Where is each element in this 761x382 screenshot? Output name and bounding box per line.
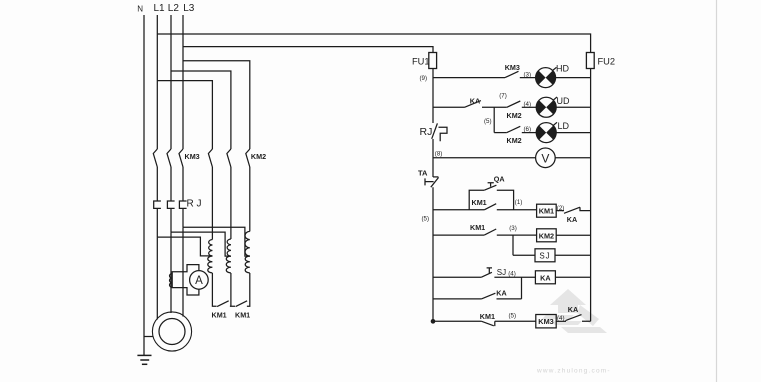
fuse FU2	[586, 53, 594, 69]
wire L3 tap to coil 3	[183, 227, 250, 256]
contact KM1 self-hold	[484, 204, 496, 210]
autotransformer coil 3	[245, 231, 250, 256]
svg-text:SJ: SJ	[539, 251, 550, 260]
wire	[497, 298, 522, 300]
contactor contact KM1 star 1	[217, 301, 229, 307]
svg-text:KA: KA	[470, 96, 480, 105]
wire	[497, 209, 537, 211]
wire branch KA self-hold	[521, 277, 523, 299]
wire L1 tap to coil 1	[157, 237, 212, 256]
svg-text:N: N	[137, 5, 143, 14]
svg-text:(4): (4)	[524, 101, 532, 108]
contactor contact KM2 pole 2	[227, 149, 231, 167]
svg-text:RJ: RJ	[420, 126, 433, 138]
svg-text:KM1: KM1	[235, 311, 250, 320]
wire UD row	[433, 106, 465, 108]
wire	[556, 234, 590, 236]
wire L2 to motor	[170, 232, 172, 313]
contact KM1 NC (KM3 row)	[482, 321, 495, 326]
svg-text:KM1: KM1	[480, 312, 495, 321]
wire KM2 column 2	[230, 167, 232, 239]
watermark	[542, 289, 607, 333]
contact KM2 (UD row)	[507, 101, 521, 107]
svg-text:L1: L1	[154, 3, 166, 14]
contact KM1 (KM2 row)	[484, 229, 496, 235]
relay coil KA	[535, 271, 555, 284]
wire	[555, 157, 590, 159]
wire branch to SJ	[512, 235, 514, 255]
wire L3 to KM2 column 3	[183, 61, 250, 149]
svg-text:L3: L3	[183, 3, 195, 14]
contactor coil KM3	[536, 315, 556, 328]
autotransformer coil 2	[227, 239, 231, 256]
svg-text:UD: UD	[557, 96, 570, 106]
wire	[182, 167, 184, 201]
svg-text:(3): (3)	[524, 71, 532, 78]
svg-text:KA: KA	[568, 305, 578, 314]
wire	[553, 67, 557, 70]
svg-text:KM2: KM2	[251, 152, 266, 161]
wire voltmeter row	[433, 157, 536, 159]
wire coil 2 tail	[230, 273, 235, 306]
svg-text:(9): (9)	[420, 75, 428, 82]
thermal relay RJ heater element	[179, 201, 186, 208]
wire	[716, 0, 718, 382]
contactor contact KM3 pole 3	[179, 149, 183, 167]
contactor contact KM1 star 2	[236, 301, 248, 307]
wire N to motor	[144, 336, 153, 338]
svg-text:(5): (5)	[484, 118, 492, 125]
svg-text:KM1: KM1	[472, 198, 487, 207]
wire	[556, 106, 590, 108]
svg-text:A: A	[195, 275, 203, 287]
thermal relay RJ heater element	[154, 201, 161, 208]
junction	[431, 320, 434, 323]
svg-text:KM3: KM3	[538, 317, 553, 326]
svg-text:(6): (6)	[524, 126, 532, 133]
wire HD row	[433, 77, 505, 79]
svg-text:(5): (5)	[422, 216, 430, 223]
lamp LD	[536, 123, 556, 143]
wire	[497, 234, 537, 236]
wire L3 vertical	[182, 15, 184, 149]
svg-text:KM3: KM3	[505, 63, 520, 72]
wire	[556, 77, 591, 79]
contact KM2 (LD row)	[507, 126, 521, 132]
svg-text:KA: KA	[540, 273, 551, 282]
svg-text:KA: KA	[567, 215, 577, 224]
svg-text:SJ: SJ	[497, 268, 506, 277]
relay contact KA (KM3 row)	[566, 315, 591, 322]
wire KM3 coil row	[433, 320, 482, 322]
svg-text:L2: L2	[168, 3, 180, 14]
svg-text:LD: LD	[558, 121, 570, 131]
svg-text:QA: QA	[494, 175, 505, 184]
relay contact KA (KM1 row)	[564, 207, 591, 213]
wire	[494, 276, 535, 278]
time relay coil SJ	[535, 249, 555, 262]
svg-text:KM3: KM3	[185, 152, 200, 161]
svg-text:(1): (1)	[515, 199, 523, 206]
wire	[170, 167, 172, 201]
wire	[522, 132, 536, 134]
svg-text:(7): (7)	[499, 93, 507, 100]
wire	[156, 167, 158, 201]
motor M1	[152, 312, 191, 351]
wire KM2 column 1	[211, 167, 213, 240]
svg-text:V: V	[541, 151, 549, 165]
wire L1 to motor	[156, 237, 158, 319]
wire L3 to FU1	[183, 47, 433, 53]
svg-text:R J: R J	[187, 199, 202, 210]
node N	[143, 15, 145, 355]
time contact SJ (delayed NO)	[481, 272, 492, 277]
svg-text:KM1: KM1	[212, 311, 227, 320]
wire KM2 coil row	[433, 234, 484, 236]
wire	[495, 320, 536, 322]
svg-text:(3): (3)	[509, 225, 517, 232]
wire	[556, 132, 590, 134]
svg-text:KA: KA	[496, 289, 506, 298]
svg-text:FU1: FU1	[412, 57, 430, 67]
wire KA coil row	[433, 276, 481, 278]
ground	[137, 355, 151, 364]
fuse FU1	[429, 53, 437, 69]
wire	[553, 97, 557, 100]
wire KA self-hold row	[433, 298, 481, 300]
autotransformer coil 1	[209, 240, 213, 257]
pushbutton QA (start, NO)	[488, 183, 494, 187]
wire branch to LD	[493, 107, 495, 132]
svg-text:(2): (2)	[557, 205, 565, 212]
wire right control bus	[590, 69, 592, 322]
wire L2 vertical	[170, 15, 172, 149]
thermal relay RJ contact	[432, 123, 438, 138]
wire L2 tap to coil 2	[171, 232, 231, 256]
wire coil 3 tail	[247, 273, 250, 306]
wire QA branch	[469, 190, 513, 210]
relay contact KA (self-hold)	[481, 293, 495, 299]
svg-text:(8): (8)	[435, 150, 443, 157]
contactor contact KM3 pole 2	[167, 149, 171, 167]
contactor contact KM2 pole 1	[208, 149, 212, 167]
svg-text:KM1: KM1	[470, 223, 485, 232]
wire L1 vertical	[156, 15, 158, 149]
wire	[520, 77, 536, 79]
wire L3 to motor	[182, 227, 184, 316]
lamp HD	[536, 68, 556, 88]
wire	[555, 254, 591, 256]
svg-text:(4): (4)	[557, 315, 565, 322]
svg-text:KM1: KM1	[539, 207, 554, 216]
current transformer winding	[170, 274, 173, 288]
wire	[522, 106, 536, 108]
svg-text:www.zhulong.com-: www.zhulong.com-	[536, 368, 611, 375]
voltmeter V1	[536, 148, 556, 168]
current transformer TA box	[172, 265, 199, 295]
wire	[555, 276, 590, 278]
wire LD row	[494, 132, 507, 134]
wire left control bus	[432, 69, 434, 124]
svg-text:(5): (5)	[509, 313, 517, 320]
wire	[556, 320, 566, 322]
wire	[482, 106, 507, 108]
svg-text:KM2: KM2	[539, 231, 554, 240]
wire L1 to KM2 column 1	[157, 81, 212, 149]
wire SJ row	[513, 254, 535, 256]
pushbutton TA (stop, NC)	[433, 176, 438, 178]
relay coil KM1	[537, 204, 557, 217]
wire L1 to FU2	[157, 34, 590, 53]
relay contact KA (UD row)	[465, 101, 481, 108]
wire	[553, 122, 557, 125]
svg-text:TA: TA	[418, 169, 428, 178]
wire coil 1 tail	[212, 273, 216, 306]
contactor contact KM2 pole 3	[246, 149, 250, 167]
thermal relay RJ heater element	[167, 201, 174, 208]
contactor coil KM2	[537, 229, 557, 242]
svg-text:KM2: KM2	[507, 136, 522, 145]
svg-text:KM2: KM2	[507, 111, 522, 120]
wire	[556, 210, 564, 212]
svg-text:FU2: FU2	[598, 57, 616, 67]
contactor contact KM3 pole 1	[153, 149, 157, 167]
wire KM1 coil row	[433, 209, 484, 211]
ammeter A1	[190, 271, 209, 290]
svg-text:(4): (4)	[508, 270, 516, 277]
svg-text:HD: HD	[556, 64, 569, 74]
contact KM3 (HD row)	[505, 71, 519, 77]
wire L2 to KM2 column 2	[171, 71, 231, 149]
lamp UD	[536, 97, 556, 117]
wire KM2 column 3	[249, 167, 251, 231]
